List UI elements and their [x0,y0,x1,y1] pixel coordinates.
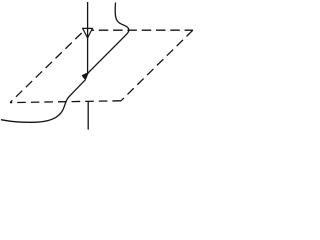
straight wire lower segment [87,101,89,129]
current arrowhead (filled) on curved wire at junction [82,72,89,78]
surface right edge (dashed) [121,30,193,101]
straight wire upper segment [87,2,89,73]
current arrowhead (hollow triangle) on straight wire [83,28,93,38]
surface left edge (dashed) [10,30,85,102]
surface bottom edge (dashed) [10,101,121,103]
curved wire upper segment (top lead-in hook and diagonal) [88,3,129,74]
surface top edge (dashed) [85,29,194,31]
curved wire lower segment (diagonal and bottom lead-out sweep) [1,73,88,122]
